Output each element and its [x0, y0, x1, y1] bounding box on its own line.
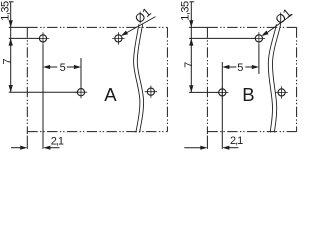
- svg-text:B: B: [242, 84, 254, 105]
- svg-text:5: 5: [237, 62, 243, 74]
- svg-text:1,35: 1,35: [0, 1, 12, 21]
- svg-text:5: 5: [60, 62, 66, 74]
- svg-text:2,1: 2,1: [230, 135, 243, 147]
- svg-text:7: 7: [1, 58, 13, 64]
- svg-text:1,35: 1,35: [180, 1, 192, 21]
- svg-text:7: 7: [183, 62, 195, 68]
- svg-text:A: A: [104, 84, 117, 105]
- svg-text:2,1: 2,1: [51, 135, 64, 147]
